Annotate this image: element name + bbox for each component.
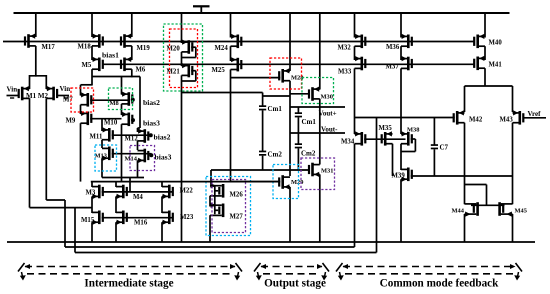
transistor M1 <box>23 88 30 90</box>
dimension band Intermediate stage <box>25 266 235 268</box>
wire M27 drain down <box>209 215 211 242</box>
svg-text:M40: M40 <box>489 40 503 47</box>
svg-text:M13: M13 <box>95 153 107 160</box>
svg-text:M39: M39 <box>392 173 406 180</box>
wire M19-M6 <box>131 46 133 60</box>
svg-text:M6: M6 <box>136 67 146 74</box>
wire M6 drain down <box>131 69 133 77</box>
wire M28 source riser <box>289 13 291 71</box>
wire M23 source down <box>161 222 163 242</box>
wire M3-M15 <box>91 196 93 213</box>
wire M12-M14 <box>137 141 139 150</box>
highlight box M20 M21 red <box>170 29 198 88</box>
transistor M27 <box>210 204 222 206</box>
svg-text:M17: M17 <box>42 44 56 51</box>
wire Cm column upper <box>262 93 264 106</box>
wire M26 source riser <box>210 170 212 186</box>
transistor M44 <box>465 203 477 205</box>
svg-text:C7: C7 <box>440 144 449 152</box>
wire M9 drain down <box>80 123 82 181</box>
wire M45 source down <box>512 214 514 242</box>
svg-text:M21: M21 <box>167 69 181 76</box>
highlight box M14 purple <box>130 146 155 171</box>
transistor M22 <box>162 186 169 188</box>
wire M1 source riser <box>29 75 31 89</box>
svg-text:bias1: bias1 <box>102 51 119 60</box>
wire cap2 column upper <box>297 107 299 113</box>
svg-text:Vin: Vin <box>7 86 18 94</box>
wire M2 drain down <box>45 98 47 200</box>
transistor M14 <box>138 150 145 152</box>
transistor M28 <box>284 70 291 72</box>
wire M36-M37 <box>400 46 402 60</box>
highlight box M30 green <box>302 78 334 104</box>
wire M42 drain down <box>464 123 466 205</box>
wire M2 drain feed <box>46 199 65 201</box>
transistor M19 <box>125 35 132 37</box>
transistor M35 <box>386 133 393 135</box>
svg-text:M9: M9 <box>66 118 76 125</box>
svg-text:Cm1: Cm1 <box>268 105 283 113</box>
wire M22 riser <box>161 182 163 187</box>
wire riser to gate line <box>129 178 131 192</box>
wire M43 drain down <box>512 123 514 205</box>
wire M16 source down <box>115 222 117 242</box>
wire C7 top <box>433 118 435 145</box>
svg-text:M26: M26 <box>230 192 244 199</box>
wire M36 source <box>400 13 402 38</box>
wire M12 source jog <box>138 127 141 129</box>
svg-text:M37: M37 <box>386 64 400 71</box>
highlight box M13 cyan <box>95 145 117 171</box>
wire Cm column middle <box>262 110 264 151</box>
wire M24 source <box>230 13 232 38</box>
node bias3 dot b <box>131 118 135 122</box>
transistor M43 <box>513 112 520 114</box>
wire CMFB tail <box>465 85 513 87</box>
svg-text:M41: M41 <box>489 62 503 69</box>
wire M3 riser <box>91 182 93 187</box>
wire M26-M27 <box>209 196 211 207</box>
wire Vout- line <box>290 132 345 134</box>
wire Cm column lower <box>262 156 264 170</box>
wire M34 drain down <box>354 144 356 247</box>
wire node tap <box>263 95 290 97</box>
ground rail <box>7 241 535 243</box>
svg-text:M24: M24 <box>215 45 229 52</box>
svg-text:M32: M32 <box>338 45 352 52</box>
wire M26 gate tie <box>214 186 216 214</box>
svg-text:M11: M11 <box>90 134 103 141</box>
transistor M2 <box>46 88 53 90</box>
svg-text:M5: M5 <box>82 62 92 69</box>
dimension band Common mode feedback <box>343 266 515 268</box>
capacitor Cm1 b <box>295 112 302 114</box>
svg-text:M36: M36 <box>386 44 400 51</box>
transistor M7 <box>81 94 88 96</box>
svg-text:M14: M14 <box>125 156 138 163</box>
wire M20 source riser <box>181 13 183 43</box>
svg-text:M35: M35 <box>379 125 393 132</box>
wire M7-M9 <box>80 105 82 114</box>
wire M1 drain feed <box>30 207 93 209</box>
wire M17 drain to tail <box>35 46 37 77</box>
wire M7 source riser <box>80 85 82 96</box>
wire cap2 column mid <box>297 117 299 133</box>
wire M15 source down <box>91 222 93 242</box>
svg-text:M8: M8 <box>110 100 119 107</box>
wire cap2 column low <box>297 148 299 170</box>
svg-text:M23: M23 <box>180 214 194 221</box>
wire M20-M21 <box>181 52 183 66</box>
wire M21 drain down <box>181 75 183 242</box>
wire M20 diode loop <box>191 46 196 48</box>
wire intermediate out line <box>91 181 279 183</box>
transistor M5 <box>92 58 99 60</box>
wire M38 diode loop <box>411 138 416 140</box>
wire cap2 column mid2 <box>297 133 299 144</box>
svg-text:bias3: bias3 <box>155 152 172 161</box>
wire M44 tie horiz <box>465 184 487 186</box>
capacitor Cm2 b <box>295 143 302 145</box>
wire M26 top stub <box>210 185 215 187</box>
svg-text:Vref: Vref <box>528 110 542 118</box>
highlight box M26 M27 purple <box>212 180 246 233</box>
wire M42 source riser <box>464 86 466 112</box>
wire top VDD rail <box>14 12 510 14</box>
wire left feedback riser 1 <box>64 200 66 247</box>
transistor M20 <box>182 41 189 43</box>
svg-text:M10: M10 <box>104 120 118 127</box>
transistor M38 <box>401 133 408 135</box>
wire M44 M45 gate line <box>471 204 505 206</box>
wire M17 source <box>35 13 37 37</box>
svg-text:Vin: Vin <box>60 85 71 93</box>
svg-text:Common mode feedback: Common mode feedback <box>380 278 499 290</box>
wire feedback line 3 <box>75 252 377 254</box>
transistor M16 <box>116 211 123 213</box>
wire M32 source <box>354 13 356 38</box>
svg-text:M42: M42 <box>469 117 483 124</box>
transistor M34 <box>355 133 362 135</box>
svg-text:M25: M25 <box>212 67 226 74</box>
wire M4-M16 <box>115 196 117 213</box>
wire M18-M5 <box>91 46 93 60</box>
wire M11 source riser <box>101 119 103 131</box>
wire M25 drain down <box>230 70 232 182</box>
wire M41 drain down <box>484 68 486 86</box>
wire M12 source riser <box>139 77 141 129</box>
transistor M23 <box>162 211 169 213</box>
transistor M9 <box>81 112 88 114</box>
wire M40 source <box>484 13 486 38</box>
wire M19 source <box>131 13 133 37</box>
svg-text:Output stage: Output stage <box>264 278 326 290</box>
transistor M40 <box>479 35 486 37</box>
wire M10 drain down <box>121 124 123 181</box>
highlight box M28 red <box>270 58 302 89</box>
wire Vref line <box>523 117 546 119</box>
transistor M42 <box>458 112 465 114</box>
highlight box M26 M27 cyan <box>206 177 251 236</box>
svg-text:M3: M3 <box>86 190 96 197</box>
wire diff pair tail <box>30 75 47 77</box>
svg-text:Intermediate stage: Intermediate stage <box>84 278 173 290</box>
wire feedback line 2 <box>65 246 355 248</box>
wire line B M29 gate <box>231 181 281 183</box>
wire VL1 mid <box>289 81 291 176</box>
transistor M33 <box>355 58 362 60</box>
wire M1 drain down <box>29 98 31 207</box>
transistor M17 <box>29 35 36 37</box>
wire left feedback riser 2 <box>74 208 76 253</box>
wire gate row M34 <box>364 138 405 140</box>
svg-text:M16: M16 <box>134 220 148 227</box>
svg-text:M22: M22 <box>180 188 194 195</box>
highlight box M8 green <box>109 88 133 110</box>
transistor M8 <box>122 93 129 95</box>
svg-text:M18: M18 <box>78 44 92 51</box>
wire gate bias rail 2 <box>102 63 474 65</box>
wire M18 source <box>91 13 93 37</box>
wire M39 source down <box>400 179 402 242</box>
wire M11 gate line <box>112 134 151 136</box>
svg-text:M33: M33 <box>338 69 352 76</box>
wire C7 bottom <box>433 149 435 176</box>
wire M32-M33 <box>354 46 356 60</box>
svg-text:M31: M31 <box>321 168 333 175</box>
wire M44 source down <box>464 214 466 242</box>
transistor M18 <box>92 35 99 37</box>
svg-text:Cm1: Cm1 <box>302 118 317 126</box>
transistor M3 <box>92 186 99 188</box>
transistor M6 <box>125 58 132 60</box>
wire Vin+ input <box>56 95 69 97</box>
svg-text:M12: M12 <box>125 136 139 143</box>
svg-text:M44: M44 <box>452 208 465 215</box>
transistor M4 <box>116 186 123 188</box>
transistor M45 <box>501 203 513 205</box>
capacitor Cm2 <box>259 151 266 153</box>
transistor M39 <box>401 168 408 170</box>
capacitor C7 <box>431 144 438 146</box>
wire M29 drain down <box>289 187 291 242</box>
transistor M10 <box>122 113 129 115</box>
wire node S2 horizontal <box>92 76 140 78</box>
svg-text:M34: M34 <box>341 139 355 146</box>
svg-text:Cm2: Cm2 <box>268 151 283 159</box>
wire stage2 bias line <box>355 117 455 119</box>
svg-text:bias2: bias2 <box>154 132 171 141</box>
wire M37 drain down <box>400 68 402 134</box>
wire gate row M15 <box>102 217 172 219</box>
svg-text:Vout-: Vout- <box>321 126 338 134</box>
transistor M24 <box>231 35 238 37</box>
highlight box M20 M21 green <box>164 24 203 91</box>
svg-text:M27: M27 <box>230 214 244 221</box>
wire M35 drain down <box>392 144 394 176</box>
svg-text:M45: M45 <box>515 208 527 215</box>
wire M8 source riser <box>121 77 123 95</box>
wire M11-M13 <box>101 140 103 148</box>
wire node S1 horizontal <box>81 84 93 86</box>
svg-text:Vout+: Vout+ <box>319 110 337 118</box>
transistor M12 <box>138 130 145 132</box>
wire line A <box>211 169 309 171</box>
wire M39 gate line <box>411 175 513 177</box>
wire M13 drain down <box>101 158 103 177</box>
wire gate row M3 <box>102 191 172 193</box>
transistor M32 <box>355 35 362 37</box>
svg-text:bias2: bias2 <box>143 98 160 107</box>
wire Cm column top <box>182 92 263 94</box>
wire M30 source riser <box>319 13 321 90</box>
highlight box M7 red <box>71 88 94 112</box>
transistor M11 <box>102 129 109 131</box>
wire M7 gate line <box>90 99 127 101</box>
transistor M37 <box>401 58 408 60</box>
transistor M29 <box>284 176 291 178</box>
VDD power symbol <box>193 5 210 7</box>
wire M28 gate line <box>231 77 281 79</box>
wire M33 drain down <box>354 68 356 134</box>
wire M13 gate line <box>112 153 152 155</box>
transistor M21 <box>182 65 189 67</box>
highlight box M31 purple <box>301 158 335 190</box>
wire M13-M14 drain join <box>102 177 144 179</box>
wire M5 drain down <box>91 69 93 85</box>
svg-text:bias3: bias3 <box>143 118 160 127</box>
wire M43 source riser <box>512 86 514 112</box>
transistor M26 <box>210 185 222 187</box>
svg-text:M20: M20 <box>167 46 181 53</box>
svg-text:M43: M43 <box>500 117 514 124</box>
node bias2 dot a <box>131 98 135 102</box>
wire M2 source riser <box>45 75 47 89</box>
wire M30 gate line <box>290 93 310 95</box>
svg-text:Cm2: Cm2 <box>301 150 316 158</box>
wire M31 drain down <box>319 174 321 242</box>
wire Vout+ line <box>290 106 345 108</box>
transistor M41 <box>479 57 486 59</box>
wire M14 drain down <box>137 160 139 177</box>
wire M44 tie riser <box>486 185 488 206</box>
wire M40-M41 <box>484 46 486 60</box>
transistor M13 <box>102 147 109 149</box>
wire gate bias rail 1 <box>3 41 474 43</box>
wire M8-M10 <box>121 104 123 115</box>
svg-text:M7: M7 <box>63 97 73 104</box>
dimension band Output stage <box>261 266 322 268</box>
highlight box M29 cyan <box>273 165 299 199</box>
transistor M31 <box>313 164 320 166</box>
svg-text:M4: M4 <box>133 194 143 201</box>
wire M4 riser <box>115 182 117 187</box>
wire M38-M39 <box>400 144 402 170</box>
capacitor Cm1 <box>259 105 266 107</box>
transistor M25 <box>231 59 238 61</box>
node bias2 dot c <box>149 133 153 137</box>
wire Vin- input <box>7 95 20 97</box>
wire M24-M25 <box>230 46 232 61</box>
svg-text:M19: M19 <box>137 45 151 52</box>
node bias3 dot d <box>149 153 153 157</box>
wire VL2 mid <box>319 99 321 165</box>
transistor M15 <box>92 211 99 213</box>
wire M9 gate line <box>90 118 121 120</box>
transistor M36 <box>401 35 408 37</box>
svg-text:M38: M38 <box>407 126 419 133</box>
transistor M30 <box>313 88 320 90</box>
svg-text:M30: M30 <box>321 94 333 101</box>
wire M21 diode loop <box>191 70 196 72</box>
wire M22-M23 <box>161 196 163 213</box>
wire mid riser <box>376 118 378 253</box>
